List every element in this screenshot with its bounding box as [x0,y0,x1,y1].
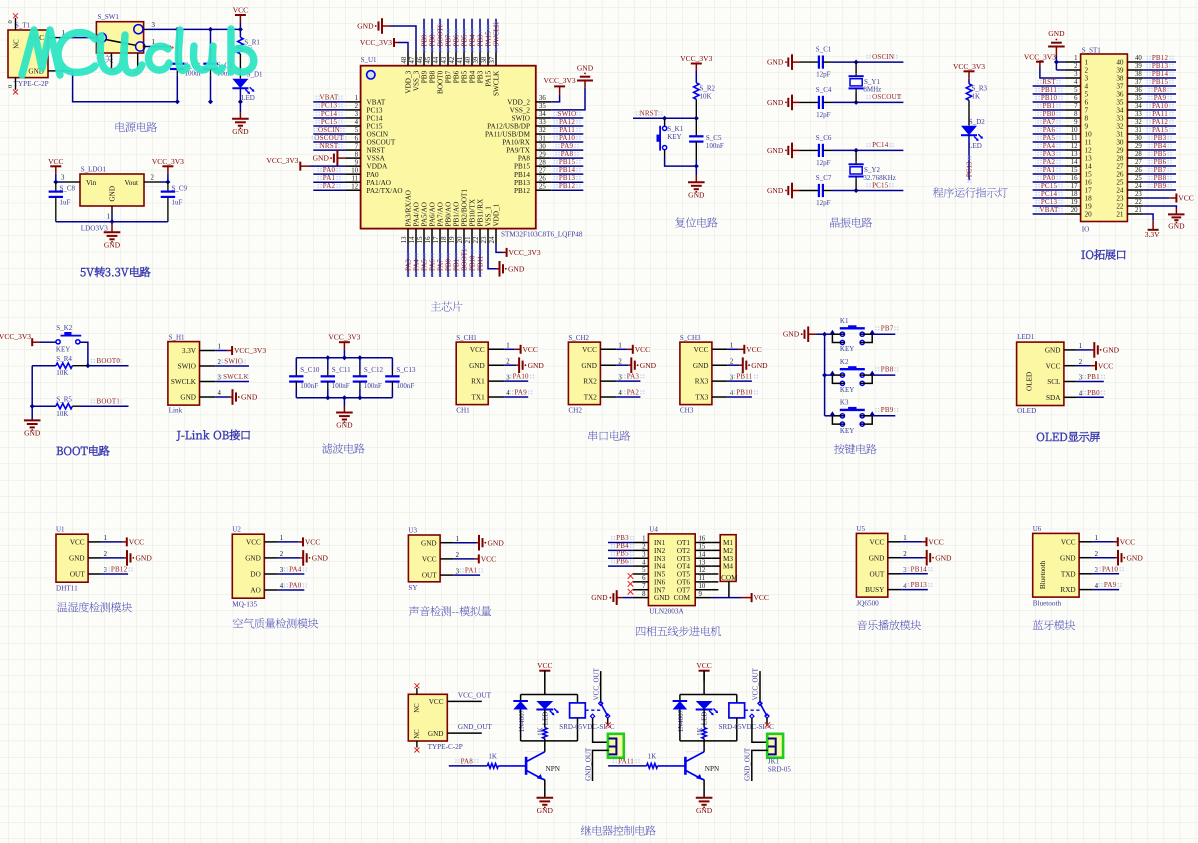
top rail [680,694,737,696]
svg-text:VCC_3V3: VCC_3V3 [152,157,184,166]
svg-text:ULN2003A: ULN2003A [649,608,684,616]
pin 3 OUT [440,574,453,576]
svg-text:31: 31 [1135,127,1142,134]
pin 30 PA9/TX [536,149,551,151]
svg-text:SDA: SDA [1046,394,1061,402]
transistor NPN [703,741,705,752]
pin 2 GND [712,364,728,366]
pin 22 right [1127,205,1143,207]
svg-text:2: 2 [456,552,460,559]
pin 44 BOOT0 [439,51,441,66]
LED [536,701,553,710]
VCC_3V3 port [691,63,702,65]
svg-text:38: 38 [1135,71,1142,78]
svg-text:8: 8 [355,151,359,158]
svg-text:TX2: TX2 [584,394,598,402]
svg-text:PB8: PB8 [1154,174,1167,182]
pin 39 PB3 [479,51,481,66]
pin 22 to ground [1143,206,1176,209]
svg-text:PB14: PB14 [1152,70,1169,78]
wire net OSCIN [313,133,345,135]
svg-text:SWIO: SWIO [178,363,196,371]
svg-text:32: 32 [539,127,546,134]
pin 9 left [1065,125,1081,127]
svg-text:PC13: PC13 [1041,198,1058,206]
svg-text:CH1: CH1 [456,406,470,414]
contact NC with x [766,718,768,726]
relay contact [745,709,761,711]
wire net PA7 [439,244,441,278]
svg-text:100nF: 100nF [706,142,724,150]
svg-text:1: 1 [456,536,459,543]
svg-text:PA11/USB/DM: PA11/USB/DM [485,131,531,139]
svg-text:MQ-135: MQ-135 [232,600,257,608]
pin 1 left [1065,61,1081,63]
svg-text:IN5: IN5 [654,571,666,579]
svg-text:RST: RST [1042,78,1056,86]
svg-text:1K: 1K [648,752,657,760]
svg-text:1: 1 [104,535,107,542]
svg-text:PB2/BOOT1: PB2/BOOT1 [461,189,469,227]
wire net PB1 [455,244,457,278]
svg-text:PB11: PB11 [476,255,484,271]
pin 1 VCC [88,541,101,543]
svg-text:PA15: PA15 [484,31,492,47]
wire net PB11 [1033,93,1065,95]
wire OSCOUT [832,101,904,103]
svg-text:PA9: PA9 [514,389,527,397]
svg-text:35: 35 [539,103,546,110]
wire net PC15 [1033,189,1065,191]
pin 7 IN7 [633,589,649,591]
VCC_3V3 port at pin 36 VDD_2 [551,95,559,102]
svg-text:GND: GND [69,555,85,563]
svg-text:16: 16 [425,236,432,243]
svg-text:12: 12 [1071,143,1078,150]
wire net PB10 [471,244,473,278]
svg-text:9: 9 [1085,123,1089,131]
svg-text:GND: GND [581,362,597,370]
pin 1 GND [1064,349,1077,351]
svg-text:24: 24 [489,236,496,243]
svg-text:DHT11: DHT11 [56,584,78,592]
pin 31 right [1127,133,1143,135]
svg-text:NC: NC [14,39,21,49]
svg-text:GND_OUT: GND_OUT [744,747,752,781]
pin 38 right [1127,77,1143,79]
svg-text:BOOT0: BOOT0 [97,357,121,365]
svg-text:NRST: NRST [320,142,339,150]
svg-text:SWCLK: SWCLK [223,373,249,381]
svg-text:36: 36 [1135,87,1142,94]
svg-text:GND: GND [428,730,444,738]
svg-text:43: 43 [441,56,448,63]
VCC_3V3 port right [162,165,173,167]
svg-text:OSCOUT: OSCOUT [314,134,344,142]
pin 15 OT2 [695,549,712,551]
svg-text:25: 25 [1135,175,1142,182]
svg-text:33: 33 [1135,111,1142,118]
svg-text:PC13: PC13 [367,107,383,115]
wire net PA4 [1033,149,1065,151]
svg-text:KEY: KEY [840,427,854,435]
GND_OUT wire [593,750,609,781]
svg-text:S_K1: S_K1 [667,125,683,133]
svg-text:2: 2 [104,551,108,558]
wire net PA8 [551,157,583,159]
pin stub T1 top no-connect [15,18,17,30]
pin 36 right [1127,93,1143,95]
svg-text:16: 16 [1071,175,1078,182]
svg-text:SY: SY [408,584,418,592]
svg-text:9: 9 [1074,119,1078,126]
svg-text:IN2: IN2 [654,547,666,555]
wire button to BOOT0 [80,342,88,366]
svg-text:DO: DO [250,571,260,579]
title 复位电路 [675,217,717,227]
contact NO to connector [750,714,754,718]
pin 2 GND [888,557,901,559]
svg-text:PA6: PA6 [1043,126,1056,134]
svg-text:VCC_3V3: VCC_3V3 [509,248,541,257]
ground GND [688,181,705,183]
svg-text:PB5: PB5 [616,550,629,558]
svg-text:PB12: PB12 [1152,54,1169,62]
svg-text:S_H1: S_H1 [169,334,185,342]
svg-text:2: 2 [730,358,734,365]
svg-text:VCC: VCC [246,539,261,547]
svg-text:25: 25 [539,183,546,190]
wire OT3 to M3 [712,557,720,559]
pin 4 SDA [1064,396,1077,398]
svg-text:40: 40 [465,56,472,63]
svg-text:9: 9 [699,591,703,598]
svg-text:VCC_OUT: VCC_OUT [752,667,760,700]
svg-text:36: 36 [539,95,546,102]
svg-text:1: 1 [1079,343,1082,350]
wire net PB8 [431,19,433,51]
svg-text:10: 10 [1071,127,1078,134]
svg-text:34: 34 [1135,103,1142,110]
svg-text:GND: GND [640,361,657,370]
svg-text:S_R1: S_R1 [244,39,260,47]
svg-text:BUSY: BUSY [865,586,885,594]
pin 16 PA6/AO [431,229,433,244]
svg-text:PB3: PB3 [1154,134,1167,142]
svg-text:PB11/RX: PB11/RX [477,198,485,227]
emitter to ground [544,780,546,798]
pin 32 PA11/USB/DM [536,133,551,135]
svg-text:KEY: KEY [56,345,70,353]
svg-text:PB8: PB8 [429,70,437,83]
pin 2 IN2 [633,549,649,551]
pin 48 VDD_3 [407,51,409,66]
wire ground rail [817,333,833,335]
svg-text:6: 6 [642,575,646,582]
svg-text:GND: GND [136,554,153,563]
svg-text:32.768KHz: 32.768KHz [863,174,895,182]
svg-text:OUT: OUT [870,570,885,578]
svg-text:PB5: PB5 [460,34,468,47]
svg-text:19: 19 [1085,203,1093,211]
title 电源电路 [116,122,158,132]
pin 2 VCC [440,558,453,560]
pin to ground [453,542,476,544]
pin 21 to 3.3V port [1143,214,1153,221]
svg-text:PC14: PC14 [1041,190,1058,198]
pin 3 OUT [888,573,901,575]
wire net PC14 [313,117,345,119]
svg-text:25: 25 [1116,179,1124,187]
svg-text:VCC: VCC [754,593,769,602]
wire net PB4 [471,19,473,51]
wire net PA4 [415,244,417,278]
svg-text:PA5: PA5 [420,259,428,271]
svg-text:S_R3: S_R3 [972,85,988,93]
svg-text:GND: GND [528,361,545,370]
title 四相五线步进电机 [636,626,721,636]
pin 2 SWIO [200,365,216,367]
capacitor S_C1 12pF [800,61,819,63]
svg-text:PC13: PC13 [321,102,338,110]
ground GND [696,797,713,799]
svg-text:PB9: PB9 [881,406,894,414]
svg-text:26: 26 [1135,167,1142,174]
svg-text:PA8: PA8 [561,150,574,158]
svg-text:1: 1 [1085,59,1089,67]
svg-text:3: 3 [355,111,359,118]
svg-text:33: 33 [539,119,546,126]
svg-text:4: 4 [218,390,222,397]
svg-text:GND: GND [108,186,116,202]
svg-text:GND: GND [245,555,261,563]
svg-text:PB13: PB13 [911,581,928,589]
open wires OT5-OT7 [712,573,719,575]
svg-text:30: 30 [1116,139,1124,147]
VCC_3V3 port at pin 48 VDD_3 [398,43,408,52]
wire net PB4 [1143,149,1176,151]
relay coil SRD-05VDC-SL-C [736,695,738,703]
pin 19 PB1/AO [455,229,457,244]
svg-text:GND: GND [241,393,258,402]
svg-text:NRST: NRST [640,109,659,117]
svg-text:5: 5 [355,127,359,134]
svg-text:16: 16 [1085,179,1093,187]
svg-text:VCC: VCC [1178,194,1193,203]
svg-text:21: 21 [1135,207,1142,214]
wire net PB15 [551,165,583,167]
pin 19 left [1065,205,1081,207]
svg-text:PA3: PA3 [1043,150,1056,158]
svg-text:PA5/AO: PA5/AO [421,202,429,227]
diode 1N4007 [520,695,522,702]
svg-text:Vin: Vin [86,179,97,187]
capacitor S_C2 100uF [176,29,178,57]
svg-text:U2: U2 [232,526,241,534]
stub bottom no-connect [416,741,418,748]
svg-text:JK1: JK1 [768,758,780,766]
svg-text:S_C7: S_C7 [816,174,832,182]
svg-text:GND: GND [312,554,329,563]
svg-text:NPN: NPN [546,765,561,773]
svg-text:GND: GND [693,362,709,370]
svg-text:13: 13 [401,236,408,243]
wire net PA1 [313,181,345,183]
pin 2 to ground [616,364,628,366]
svg-text:6: 6 [355,135,359,142]
wire net PB7 [1143,173,1176,175]
svg-text:LED: LED [241,94,255,102]
svg-text:PB0: PB0 [444,258,452,271]
wire pin 24 VDD_1 to VCC_3V3 [496,244,503,253]
svg-text:K2: K2 [840,358,849,366]
pin 47 VSS_3 [415,51,417,66]
capacitor S_C6 12pF [800,149,819,151]
svg-text:11: 11 [699,575,706,582]
svg-text:17: 17 [1071,183,1078,190]
svg-text:11: 11 [1085,139,1092,147]
svg-text:GND: GND [767,186,784,195]
pin 1 3.3V [200,350,216,352]
pin 8 GND [633,597,649,599]
svg-text:18: 18 [1071,191,1078,198]
svg-text:44: 44 [433,56,440,63]
svg-text:39: 39 [1116,67,1124,75]
pin 4 PC15 [345,125,360,127]
ground at pin 8 VSSA [337,157,345,159]
wire to PB8 [872,374,895,376]
pin 2 GND [488,364,504,366]
svg-text:23: 23 [1135,191,1142,198]
pin 3 SWCLK [200,381,216,383]
svg-text:1K: 1K [972,93,981,101]
svg-text:VDD_1: VDD_1 [493,203,501,226]
svg-text:PA1: PA1 [465,567,478,575]
svg-text:10: 10 [699,583,706,590]
svg-text:TYPE-C-2P: TYPE-C-2P [428,743,463,751]
svg-text:PB9: PB9 [421,70,429,83]
svg-text:2: 2 [1079,359,1083,366]
top rail [521,694,578,696]
svg-text:S_LDO1: S_LDO1 [81,166,107,174]
title 滤波电路 [322,443,365,453]
svg-text:PA8: PA8 [461,757,474,765]
svg-text:37: 37 [1135,79,1142,86]
selection artifact dots [316,96,317,97]
svg-text:15: 15 [1071,167,1078,174]
svg-text:1: 1 [730,343,733,350]
crystal S_Y1 8MHz [855,62,857,73]
pin 23 VSS_1 [487,229,489,244]
svg-text:GND: GND [1103,346,1120,355]
svg-text:2: 2 [151,175,155,182]
pin 9 COM [695,597,712,599]
svg-text:VCC_3V3: VCC_3V3 [0,332,31,341]
pin 2 VCC [1064,365,1077,367]
pin to VCC [453,558,474,560]
wire net PB5 [1143,157,1176,159]
wire net PA0 [1033,181,1065,183]
svg-text:VCC: VCC [48,157,63,166]
svg-text:OT6: OT6 [677,578,691,586]
pin 25 right [1127,181,1143,183]
svg-text:100nF: 100nF [396,382,414,390]
svg-text:VCC: VCC [305,538,320,547]
no-connect pins 5-7 [628,573,634,579]
contact NO to connector [590,714,594,718]
svg-text:GND: GND [180,394,196,402]
svg-text:GND: GND [767,146,784,155]
wire to ground [695,166,697,175]
svg-text:PB14: PB14 [911,565,928,573]
VCC rail top [148,28,240,30]
svg-text:S_C8: S_C8 [60,184,76,192]
wire net PA2 [313,189,345,191]
pin to ground [901,557,924,559]
svg-text:PA7: PA7 [436,259,444,271]
svg-text:22: 22 [473,236,480,243]
svg-text:PB10: PB10 [1041,94,1058,102]
svg-text:40: 40 [1135,55,1142,62]
svg-text:2: 2 [280,551,284,558]
svg-text:KEY: KEY [840,345,854,353]
svg-text:GND: GND [24,429,41,438]
title 程序运行指示灯 [933,187,1008,197]
svg-text:PB6: PB6 [1154,158,1167,166]
svg-text:30: 30 [1135,135,1142,142]
wire net PB9 [423,19,425,51]
svg-text:VCC_3V3: VCC_3V3 [328,333,360,342]
pin 4 IN4 [633,565,649,567]
svg-text:GND: GND [508,264,525,273]
svg-text:CH3: CH3 [680,406,694,414]
svg-text:8: 8 [642,591,646,598]
svg-text:3.3V: 3.3V [1145,230,1160,239]
svg-text:RX1: RX1 [471,378,485,386]
pin 2 left [1065,69,1081,71]
svg-text:VCC: VCC [1061,538,1076,546]
svg-text:PA2: PA2 [1043,158,1056,166]
wire net PA9 [1143,101,1176,103]
wire net NRST [313,149,345,151]
wire OT2 to M2 [712,549,720,551]
svg-text:PB6: PB6 [452,34,460,47]
pin 6 IN6 [633,581,649,583]
wire net PB6 [1143,165,1176,167]
wire net PB13 [551,181,583,183]
svg-text:PB4: PB4 [616,542,629,550]
svg-text:S_CH3: S_CH3 [680,334,701,342]
wire net PA3 [407,244,409,278]
svg-text:PA9: PA9 [561,142,574,150]
svg-text:K3: K3 [840,399,849,407]
svg-text:37: 37 [1116,83,1124,91]
wire net PC13 [1033,205,1065,207]
svg-text:4: 4 [1085,83,1089,91]
svg-text:M4: M4 [723,563,733,571]
svg-text:PA10: PA10 [513,373,529,381]
svg-text:PA11: PA11 [618,757,634,765]
svg-text:PB15: PB15 [514,163,530,171]
capacitor S_C10 100nF [295,358,297,370]
wire net PA5 [1033,141,1065,143]
svg-text:12: 12 [1085,147,1093,155]
pin 15 left [1065,173,1081,175]
svg-text:PA11: PA11 [559,126,575,134]
svg-text:12: 12 [699,567,706,574]
resistor S_R3 1K [966,84,971,101]
svg-text:PA1: PA1 [323,174,336,182]
